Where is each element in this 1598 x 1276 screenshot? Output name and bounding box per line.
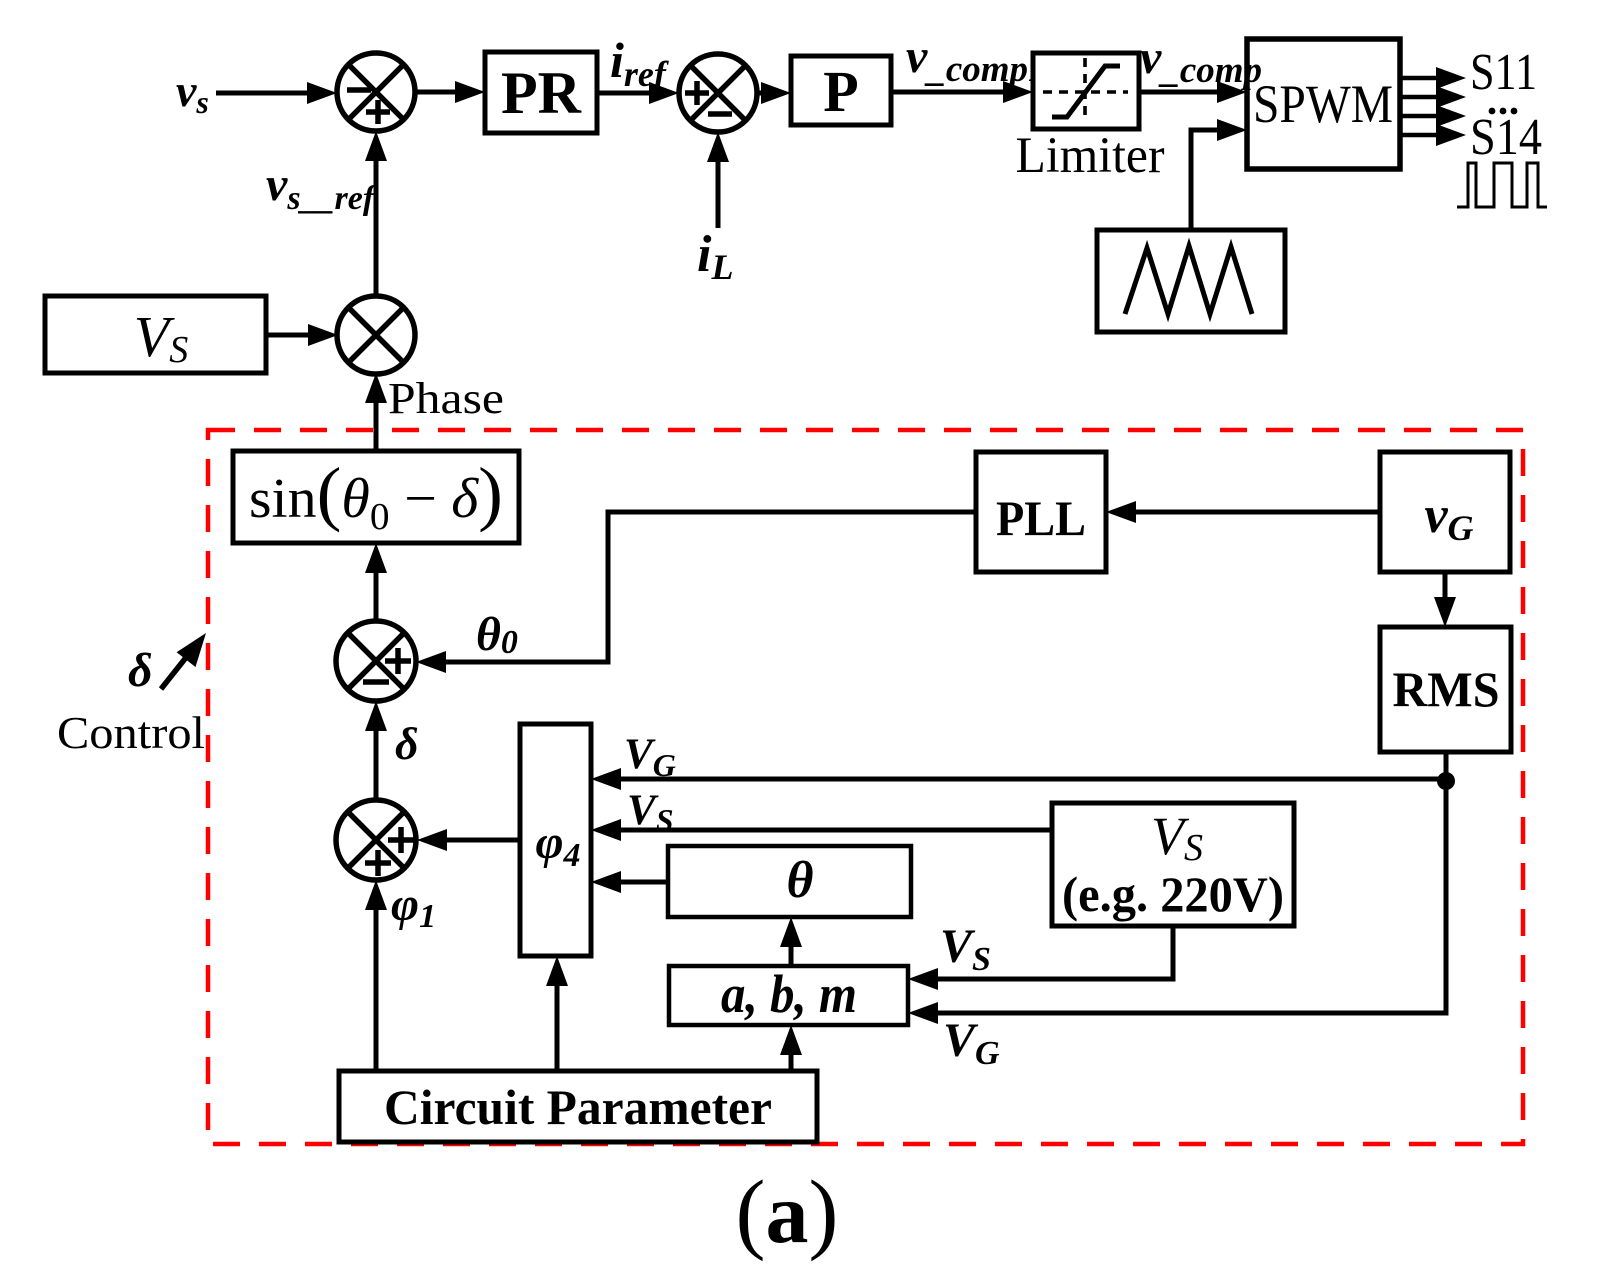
- svg-text:P: P: [823, 59, 858, 124]
- svg-text:Circuit Parameter: Circuit Parameter: [384, 1079, 772, 1135]
- svg-text:(a): (a): [736, 1163, 839, 1262]
- svg-text:θ: θ: [787, 852, 814, 909]
- svg-text:SPWM: SPWM: [1253, 74, 1393, 134]
- svg-text:(e.g. 220V): (e.g. 220V): [1062, 866, 1284, 922]
- svg-text:Phase: Phase: [388, 374, 504, 423]
- svg-text:S11: S11: [1470, 44, 1537, 101]
- svg-text:PR: PR: [501, 60, 582, 126]
- svg-text:a, b, m: a, b, m: [721, 964, 857, 1024]
- svg-text:Limiter: Limiter: [1016, 128, 1165, 184]
- svg-text:RMS: RMS: [1393, 661, 1500, 717]
- svg-text:Control: Control: [57, 708, 205, 758]
- svg-text:PLL: PLL: [996, 490, 1086, 546]
- svg-text:δ: δ: [128, 644, 153, 697]
- svg-text:δ: δ: [395, 718, 419, 769]
- svg-text:S14: S14: [1470, 109, 1542, 166]
